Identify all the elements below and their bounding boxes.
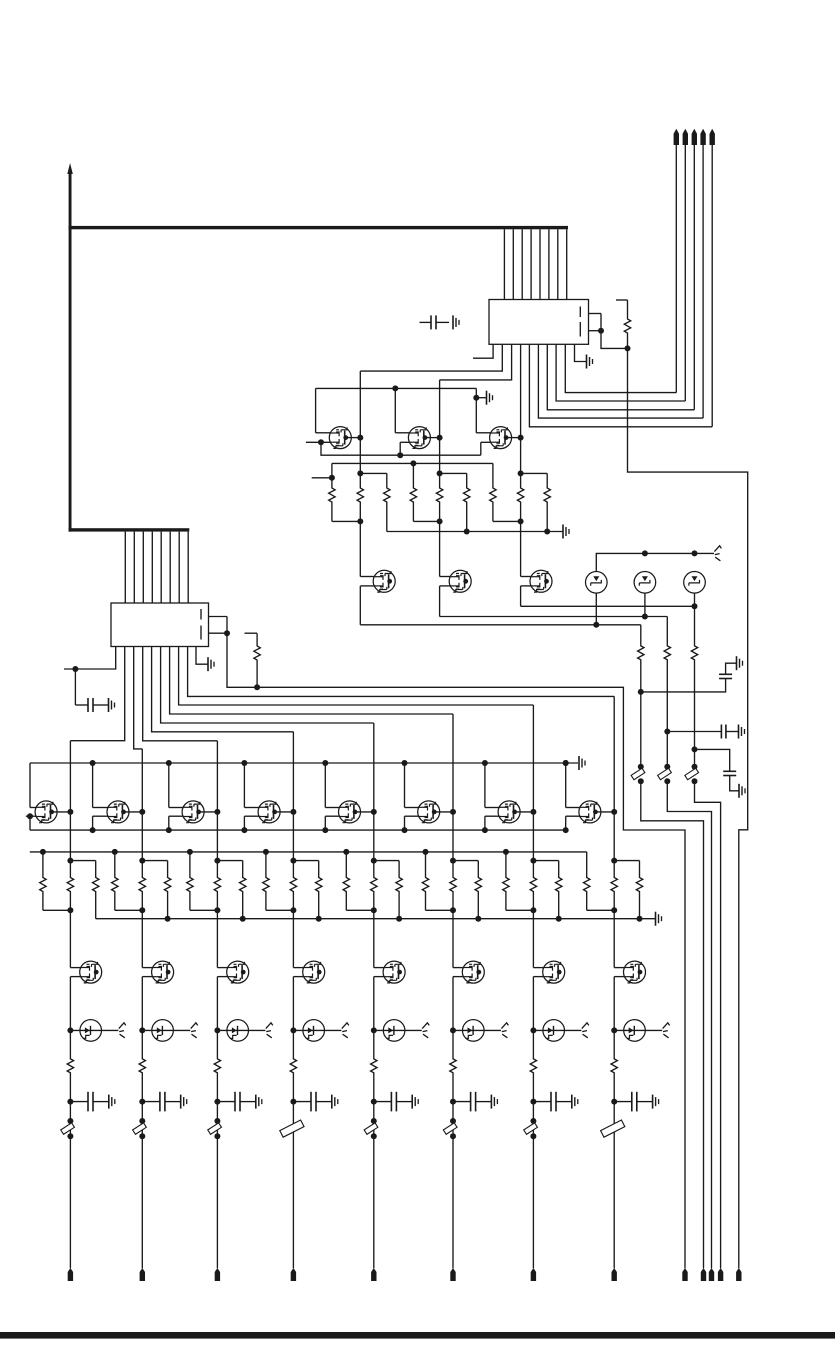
arrow terminal T19 (bottom, channel 5) xyxy=(371,1268,376,1281)
wire: R10 top stub xyxy=(521,472,548,474)
wire: channel 4 main column xyxy=(292,732,294,861)
jumper JP2 (channel 2) xyxy=(133,1123,147,1134)
node gate1 rail / ch4 xyxy=(241,760,247,766)
wire: ch6 gate1 column xyxy=(405,763,420,808)
wire: channel 1 to Q4 gate1 xyxy=(359,521,361,576)
resistor R14 (CN2 bias) xyxy=(245,633,261,687)
wire: rail D (main network common) xyxy=(96,918,655,920)
capacitor C8 to ground xyxy=(667,725,744,739)
wire: CN1 pin4 to Q3 drain column xyxy=(520,344,522,437)
resistor R8 xyxy=(490,463,496,521)
transistor Q18 (dual-gate MOSFET) xyxy=(303,961,325,983)
wire: V1 column mid xyxy=(640,692,642,767)
resistor R6 (series, channel 2) xyxy=(436,473,442,521)
wire: ch4 to Q18 gate1 xyxy=(293,910,304,967)
wire: ch3 gate1 column xyxy=(169,763,184,808)
wire: Q6 gate2 column xyxy=(521,586,532,606)
resistor R48 (channel 4) xyxy=(290,1030,296,1101)
wire: CN2 pin8 to channel 7 xyxy=(179,647,534,706)
node JP7 bottom xyxy=(530,1133,536,1139)
diode D3 (varicap) xyxy=(684,572,706,594)
diode D5 (varicap) xyxy=(142,1020,190,1042)
resistor R37 (channel 6) xyxy=(475,861,481,919)
arrow terminal T20 (bottom, channel 6) xyxy=(450,1268,455,1281)
wire: Q3 gate1 column xyxy=(476,388,490,432)
node Q10 drain xyxy=(290,809,296,815)
jumper JP8 (channel 8) xyxy=(601,1120,625,1137)
page footer bar xyxy=(0,1332,835,1339)
transistor Q9 (dual-gate MOSFET) xyxy=(182,801,204,823)
wire: V2 column mid xyxy=(666,732,668,767)
node channel 3 lower tap xyxy=(518,518,524,524)
resistor R49 (channel 5) xyxy=(371,1030,377,1101)
wire: Q7 drain to channel xyxy=(52,811,71,813)
arrow terminal T5 (antenna input) xyxy=(710,129,715,427)
node Q2 gate2 on source rail xyxy=(397,452,403,458)
wires: CN2 top pins to bus xyxy=(125,532,188,603)
node ch2 upper tap xyxy=(139,858,145,864)
wire: node C to arrow column xyxy=(227,633,685,1268)
node ch8 / C17 tap xyxy=(611,1099,617,1105)
node ch3 / D6 anode xyxy=(214,1027,220,1033)
node ch5 lower tap xyxy=(371,907,377,913)
node JP5 top xyxy=(371,1118,377,1124)
wire: CN2 pin1 stub xyxy=(64,647,116,670)
node Q2 drain xyxy=(437,435,443,441)
wire: channel1 gate2 to rail xyxy=(29,816,31,830)
transistor Q8 (dual-gate MOSFET) xyxy=(107,801,129,823)
wire: R2 bottom link xyxy=(332,520,360,522)
transistor Q6 (dual-gate MOSFET) xyxy=(530,570,552,592)
node rail A / R26 xyxy=(187,849,193,855)
wire: Q15 gate2 down xyxy=(70,977,81,1031)
chassis ground (D8) xyxy=(422,1023,429,1038)
arrow terminal T16 (bottom, channel 2) xyxy=(140,1268,145,1281)
node ch5 / D8 anode xyxy=(371,1027,377,1033)
node ch1 lower tap xyxy=(67,907,73,913)
node JP2 bottom xyxy=(139,1133,145,1139)
node B junction xyxy=(625,345,631,351)
node channel 2 lower tap xyxy=(437,518,443,524)
node rail D / ch6 xyxy=(475,916,481,922)
ground (gate1 rail) xyxy=(579,756,585,770)
transistor Q1 (dual-gate MOSFET) xyxy=(329,427,351,449)
wire: ch5 gate2 column xyxy=(325,816,340,830)
wire: Q20 gate2 down xyxy=(453,977,464,1031)
node Q8 drain xyxy=(139,809,145,815)
arrow terminal T1 (antenna input) xyxy=(674,129,679,393)
wire: ch5 gate1 column xyxy=(325,763,340,808)
node ch4 lower tap xyxy=(290,907,296,913)
wire: R34 top stub xyxy=(374,860,399,862)
wire: Q8 drain to channel xyxy=(124,811,143,813)
node Q14 drain xyxy=(611,809,617,815)
node Q9 drain xyxy=(214,809,220,815)
transistor Q4 (dual-gate MOSFET) xyxy=(373,570,395,592)
wire: ch6 lower column xyxy=(452,1102,454,1269)
wire: CN2 pin7 to channel 6 xyxy=(170,647,453,715)
node JP6 top xyxy=(450,1118,456,1124)
node gate2 rail / ch5 xyxy=(322,827,328,833)
wire: R43 top stub xyxy=(614,860,639,862)
node rail D' / R7 xyxy=(464,529,470,535)
wire: channel 2 column (top) xyxy=(439,380,441,474)
transistor Q16 (dual-gate MOSFET) xyxy=(152,961,174,983)
node rail A / R35 xyxy=(423,849,429,855)
wire: ch8 lower column xyxy=(613,1102,615,1269)
node ch5 upper tap xyxy=(371,858,377,864)
wire: gate1 rail (main row) xyxy=(30,762,578,764)
node R2 top xyxy=(329,475,335,481)
resistor R39 (series, channel 7) xyxy=(530,861,536,911)
node ch5 / C14 tap xyxy=(371,1099,377,1105)
node jumper JP6 bottom xyxy=(692,778,698,784)
capacitor C7 to ground (AGC line) xyxy=(641,656,743,692)
transistor Q14 (dual-gate MOSFET) xyxy=(579,801,601,823)
wire: Q6 gate2 line to D3 xyxy=(521,605,695,607)
arrow terminal T3 (antenna input) xyxy=(692,129,697,410)
wire: Q5 gate2 column xyxy=(440,586,451,617)
connector CN2 xyxy=(111,603,209,647)
wire: CN1 pin9 to arrow 1 xyxy=(565,344,676,392)
wire: gate2 rail (main row) xyxy=(30,829,566,831)
node C2 tap xyxy=(72,666,78,672)
resistor R41 (channel 8) xyxy=(584,852,615,910)
node Q13 drain xyxy=(530,809,536,815)
wire: ch2 gate2 column xyxy=(93,816,109,830)
capacitor C13 to ground xyxy=(293,1092,337,1112)
wire: gate rail (top group) xyxy=(316,387,477,389)
resistor R1 (CN1 bias) xyxy=(616,300,631,348)
resistor R45 (channel 1) xyxy=(67,1030,73,1101)
transistor Q2 (dual-gate MOSFET) xyxy=(408,427,430,449)
diode D2 (varicap) xyxy=(634,572,656,594)
node JP7 top xyxy=(530,1118,536,1124)
wire: channel 3 column (top) xyxy=(520,438,522,474)
wire: ch4 lower column xyxy=(292,1102,294,1269)
resistor R29 (channel 4) xyxy=(263,852,294,910)
wire: Q12 drain to channel xyxy=(434,811,453,813)
node rail D / ch3 xyxy=(240,916,246,922)
wire: V2 to arrow column xyxy=(667,781,711,1268)
wire: ch4 gate2 column xyxy=(244,816,259,830)
node jumper JP6 top xyxy=(692,764,698,770)
resistor R23 (channel 2) xyxy=(112,852,143,910)
wire: CN2 pin5 to channel 4 xyxy=(152,647,294,732)
node Q1 gate2 xyxy=(318,439,324,445)
wire: Q2 gate1 column xyxy=(395,388,409,432)
wire: CN1 pin7 to arrow 3 xyxy=(547,344,694,410)
wire: ch8 gate2 column xyxy=(566,816,581,830)
wire: V3 column mid xyxy=(694,749,696,766)
node ch8 upper tap xyxy=(611,858,617,864)
node Q7 drain xyxy=(67,809,73,815)
wire: channel 8 main column xyxy=(613,696,615,860)
resistor R2 xyxy=(329,478,335,522)
resistor R52 (channel 8) xyxy=(611,1030,617,1101)
diode D7 (varicap) xyxy=(293,1020,341,1042)
node gate2 rail / ch7 xyxy=(482,827,488,833)
diode D4 (varicap) xyxy=(70,1020,118,1042)
capacitor C2 to ground xyxy=(75,669,114,712)
wire: channel1 gate1 column xyxy=(30,763,37,808)
chassis ground (D11) xyxy=(663,1023,670,1038)
arrow terminal T18 (bottom, channel 4) xyxy=(291,1268,296,1281)
wire: D1 cathode lead xyxy=(595,593,597,625)
node ch6 upper tap xyxy=(450,858,456,864)
node rail A' / R5 xyxy=(410,460,416,466)
node ch7 / C16 tap xyxy=(530,1099,536,1105)
node jumper JP5 top xyxy=(664,764,670,770)
wire: V2 column upper xyxy=(666,617,668,641)
wire: CN2 pin4 to channel 3 xyxy=(143,647,218,741)
wire: Q1 gate1 column xyxy=(316,388,331,432)
wire: R25 top stub xyxy=(142,860,167,862)
wire: ch6 gate2 column xyxy=(405,816,420,830)
wire: ch3 lower column xyxy=(216,1102,218,1269)
resistor R38 (channel 7) xyxy=(503,852,534,910)
wire: Q6 gate1 stub xyxy=(521,576,532,578)
jumper JP5 (channel 5) xyxy=(364,1123,378,1134)
node A (CN1 stub junction) xyxy=(598,328,604,334)
wire: channel 3 to Q6 gate1 xyxy=(520,521,522,576)
transistor Q7 (dual-gate MOSFET) xyxy=(35,801,57,823)
resistor R50 (channel 6) xyxy=(450,1030,456,1101)
wire: Q22 gate2 down xyxy=(614,977,625,1031)
wire: ch3 gate2 column xyxy=(169,816,184,830)
resistor R24 (series, channel 2) xyxy=(139,861,145,911)
diode D1 (varicap) xyxy=(586,572,608,594)
wire: Q17 gate2 down xyxy=(217,977,228,1031)
arrow terminal T11 (bottom) xyxy=(709,1268,714,1281)
node ch8 lower tap xyxy=(611,907,617,913)
jumper JP1 (channel 1) xyxy=(61,1123,75,1134)
wire: diode bias rail xyxy=(596,553,714,571)
wires: CN1 top pins to bus xyxy=(504,229,566,299)
wire: ch2 to Q16 gate1 xyxy=(142,910,153,967)
node JP3 top xyxy=(214,1118,220,1124)
node ch4 upper tap xyxy=(290,858,296,864)
diode D11 (varicap) xyxy=(614,1020,662,1042)
wire: Q18 gate2 down xyxy=(293,977,304,1031)
node rail / D3 xyxy=(692,550,698,556)
node ch6 / C15 tap xyxy=(450,1099,456,1105)
node rail D / ch7 xyxy=(556,916,562,922)
transistor Q13 (dual-gate MOSFET) xyxy=(498,801,520,823)
node ch3 upper tap xyxy=(214,858,220,864)
node channel 1 upper tap xyxy=(357,470,363,476)
node rail D / ch4 xyxy=(316,916,322,922)
chassis ground (D6) xyxy=(266,1023,273,1038)
node ch1 / D4 anode xyxy=(67,1027,73,1033)
wire: node B return line xyxy=(628,348,748,1268)
node D2 cathode junction xyxy=(642,614,648,620)
node JP5 bottom xyxy=(371,1133,377,1139)
capacitor C17 to ground xyxy=(614,1092,658,1112)
arrow terminal T9 (bottom) xyxy=(682,1268,687,1281)
wire: Q21 gate2 down xyxy=(533,977,544,1031)
wire: V3 column upper xyxy=(694,606,696,640)
node ch3 lower tap xyxy=(214,907,220,913)
wire: channel 5 main column xyxy=(373,723,375,861)
transistor Q22 (dual-gate MOSFET) xyxy=(624,961,646,983)
node gate1 rail / ch6 xyxy=(402,760,408,766)
diode D10 (varicap) xyxy=(533,1020,581,1042)
resistor R36 (series, channel 6) xyxy=(450,861,456,911)
node gate2 rail / ch8 xyxy=(563,827,569,833)
wire: R40 top stub xyxy=(533,860,558,862)
wire: R8 bottom link xyxy=(493,520,521,522)
wire: ch1 lower column xyxy=(69,1102,71,1269)
node gate1 rail / ch7 xyxy=(482,760,488,766)
jumper JP7 (channel 7) xyxy=(524,1123,538,1134)
jumper JP6 (channel 6) xyxy=(443,1123,457,1134)
connector CN1 xyxy=(489,300,589,345)
chassis ground (D5) xyxy=(191,1023,198,1038)
wire: Q1 gate2 input stub xyxy=(306,441,331,443)
node ch8 / D11 anode xyxy=(611,1027,617,1033)
wire: R7 top stub xyxy=(440,472,467,474)
wire: channel 3 main column xyxy=(216,741,218,861)
transistor Q11 (dual-gate MOSFET) xyxy=(339,801,361,823)
wire: rail A (main network) xyxy=(30,851,587,853)
wire: Q3 gate2 link xyxy=(481,442,491,455)
wire: source rail (top group) xyxy=(321,442,481,455)
wire: Q2 drain to channel xyxy=(425,437,440,439)
wire: ch7 gate1 column xyxy=(485,763,500,808)
arrow terminal T14 (bottom) xyxy=(736,1268,741,1281)
wire: CN1 pin6 to arrow 4 xyxy=(538,344,703,418)
node ch1 / C10 tap xyxy=(67,1099,73,1105)
node JP6 bottom xyxy=(450,1133,456,1139)
arrow terminal T10 (bottom) xyxy=(701,1268,706,1281)
wire: R5 bottom link xyxy=(413,520,439,522)
wire: ch8 to Q22 gate1 xyxy=(614,910,625,967)
node rail D' / R10 xyxy=(544,529,550,535)
wire: Q10 drain to channel xyxy=(275,811,294,813)
wire: Q14 drain to channel xyxy=(596,811,615,813)
node gate1 rail / ch8 xyxy=(563,760,569,766)
wire: channel 7 main column xyxy=(532,705,534,861)
resistor R28 (channel 3) xyxy=(240,861,246,919)
resistor R22 (channel 1) xyxy=(93,861,99,919)
wire: R22 top stub xyxy=(70,860,95,862)
wire: CN1 pin5 to arrow 5 xyxy=(529,344,712,427)
node rail D / ch5 xyxy=(396,916,402,922)
chassis ground (D10) xyxy=(582,1023,589,1038)
node gate1 rail / ch2 xyxy=(90,760,96,766)
jumper JP4 (channel 4) xyxy=(280,1120,304,1137)
node gate1 rail / ch3 xyxy=(166,760,172,766)
wire: CN1 pin8 to arrow 2 xyxy=(556,344,685,401)
resistor R46 (channel 2) xyxy=(139,1030,145,1101)
chassis ground (D7) xyxy=(342,1023,349,1038)
resistor R9 (series, channel 3) xyxy=(517,473,523,521)
arrow terminal T4 (antenna input) xyxy=(700,129,705,418)
node rail / D2 xyxy=(642,550,648,556)
node ch7 upper tap xyxy=(530,858,536,864)
ground (rail D) xyxy=(656,912,662,926)
ground (rail D') xyxy=(563,525,569,539)
capacitor C1 to ground (left of CN1) xyxy=(420,315,460,329)
ground (CN2 pin10) xyxy=(196,647,214,672)
node JP1 bottom xyxy=(67,1133,73,1139)
arrow terminal T22 (bottom, channel 8) xyxy=(612,1268,617,1281)
jumper JP5 xyxy=(658,768,672,779)
diode D6 (varicap) xyxy=(217,1020,265,1042)
node D3 cathode junction xyxy=(692,603,698,609)
transistor Q15 (dual-gate MOSFET) xyxy=(80,961,102,983)
wire: ch3 to Q17 gate1 xyxy=(217,910,228,967)
resistor R33 (series, channel 5) xyxy=(371,861,377,911)
wire: ch5 to Q19 gate1 xyxy=(374,910,385,967)
resistor R13 xyxy=(691,640,697,749)
transistor Q20 (dual-gate MOSFET) xyxy=(462,961,484,983)
transistor Q10 (dual-gate MOSFET) xyxy=(258,801,280,823)
capacitor C15 to ground xyxy=(453,1092,497,1112)
node Q12 drain xyxy=(450,809,456,815)
resistor R20 (channel 1) xyxy=(40,852,71,910)
jumper JP6 xyxy=(685,768,699,779)
wire: ch8 gate1 column xyxy=(566,763,581,808)
wire: rail A' left drop xyxy=(331,463,333,477)
transistor Q5 (dual-gate MOSFET) xyxy=(449,570,471,592)
node channel 2 upper tap xyxy=(437,470,443,476)
wire: ch7 to Q21 gate1 xyxy=(533,910,544,967)
arrow terminal T2 (antenna input) xyxy=(683,129,688,401)
node ch7 / D10 anode xyxy=(530,1027,536,1033)
node rail D / ch8 xyxy=(637,916,643,922)
wire: ch4 gate1 column xyxy=(244,763,259,808)
node gate2 rail / ch6 xyxy=(402,827,408,833)
node V2 / C8 tap xyxy=(664,729,670,735)
resistor R35 (channel 6) xyxy=(422,852,453,910)
wire: D3 cathode lead xyxy=(694,593,696,606)
capacitor C9 to ground xyxy=(695,749,746,797)
node C (CN2 stub junction) xyxy=(224,630,230,636)
node Q1 drain xyxy=(357,435,363,441)
wire: R4 top stub xyxy=(360,472,387,474)
resistor R47 (channel 3) xyxy=(214,1030,220,1101)
power bus vertical with arrow tip xyxy=(67,163,73,532)
node rail D / ch2 xyxy=(165,916,171,922)
wire: V1 column upper xyxy=(640,625,642,640)
wire: rail A' (top network) xyxy=(332,462,493,464)
resistor R42 (series, channel 8) xyxy=(611,861,617,911)
arrow terminal T12 (bottom) xyxy=(718,1268,723,1281)
node gate1 rail / ch5 xyxy=(322,760,328,766)
node ch7 lower tap xyxy=(530,907,536,913)
node rail A / R29 xyxy=(263,849,269,855)
node ch2 / C11 tap xyxy=(139,1099,145,1105)
wire: ch7 gate2 column xyxy=(485,816,500,830)
arrow terminal T21 (bottom, channel 7) xyxy=(531,1268,536,1281)
capacitor C10 to ground xyxy=(70,1092,114,1112)
node ch2 / D5 anode xyxy=(139,1027,145,1033)
diode D9 (varicap) xyxy=(453,1020,501,1042)
wire: Q13 drain to channel xyxy=(515,811,534,813)
resistor R12 xyxy=(664,640,670,732)
node JP3 bottom xyxy=(214,1133,220,1139)
wire: CN2 pin3 to channel 2 xyxy=(134,647,143,749)
wire: channel1 gate2 input stub xyxy=(26,815,37,817)
node on gate rail (Q2 gate1) xyxy=(392,385,398,391)
wire: CN1 pin3 to Q2 drain column xyxy=(440,344,512,380)
wire: R37 top stub xyxy=(453,860,478,862)
jumper JP4 xyxy=(631,768,645,779)
wire: CN1 output stub loop xyxy=(589,314,602,331)
wire: Q1 drain to channel xyxy=(346,437,360,439)
